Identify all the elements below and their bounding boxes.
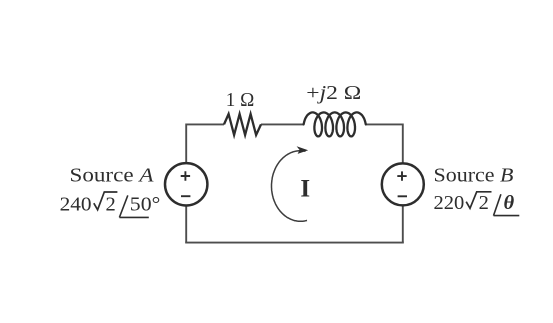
svg-text:2: 2 (479, 192, 489, 214)
source B minus sign (398, 195, 407, 197)
mesh current arc (272, 151, 308, 222)
wire bottom (185, 242, 404, 244)
angle slash A (119, 195, 127, 217)
svg-text:Source A: Source A (70, 165, 155, 187)
svg-text:220: 220 (434, 192, 465, 214)
source B plus sign (397, 171, 406, 180)
wire between resistor and inductor (261, 123, 304, 125)
svg-text:1 Ω: 1 Ω (226, 89, 255, 111)
source A circle (165, 163, 207, 205)
wire right vertical upper (402, 124, 404, 164)
resistor R zigzag (224, 114, 261, 135)
wire left vertical lower (185, 206, 187, 243)
svg-text:50°: 50° (130, 194, 161, 216)
wire top-left segment (186, 123, 224, 125)
svg-text:+j2 Ω: +j2 Ω (306, 82, 361, 104)
angle underline B (494, 215, 520, 217)
svg-text:240: 240 (60, 194, 92, 216)
wire left vertical upper (185, 124, 187, 164)
mesh current arrowhead (297, 146, 309, 154)
radical sign A (94, 192, 118, 210)
svg-text:θ: θ (504, 192, 515, 214)
wire right vertical lower (402, 206, 404, 243)
wire inductor to top-right corner (366, 123, 403, 125)
angle underline A (119, 216, 148, 218)
inductor L coil (304, 112, 366, 136)
source A plus sign (181, 171, 190, 180)
source B circle (382, 163, 424, 205)
radical sign B (466, 192, 491, 209)
source A minus sign (181, 195, 190, 197)
angle slash B (494, 194, 501, 215)
svg-text:2: 2 (106, 194, 116, 216)
svg-text:I: I (300, 176, 310, 203)
svg-text:Source B: Source B (434, 165, 515, 187)
